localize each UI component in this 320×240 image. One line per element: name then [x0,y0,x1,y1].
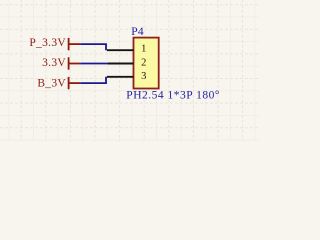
svg-text:3.3V: 3.3V [42,57,66,69]
svg-text:3: 3 [141,71,146,82]
svg-text:1: 1 [141,43,146,54]
wire 3.3V to pin 2 [80,63,107,65]
svg-text:PH2.54 1*3P 180°: PH2.54 1*3P 180° [126,90,220,102]
connector P4 body [134,38,159,89]
wire B_3V to pin 3 [80,77,106,83]
svg-text:2: 2 [141,57,146,68]
power port P_3.3V [29,37,80,50]
pin 2 [108,57,147,68]
svg-text:B_3V: B_3V [37,77,66,89]
power port 3.3V [42,57,80,70]
power port B_3V [37,77,80,89]
pin 1 [107,43,147,54]
wire P_3.3V to pin 1 [80,44,106,50]
svg-text:P4: P4 [131,26,144,38]
pin 3 [107,71,147,82]
svg-text:P_3.3V: P_3.3V [29,37,66,49]
